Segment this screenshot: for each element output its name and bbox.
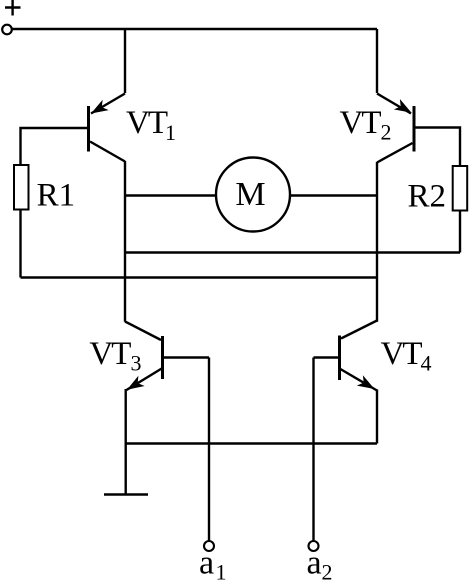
svg-text:3: 3 [131,351,142,376]
svg-text:VT: VT [89,336,131,372]
svg-text:M: M [235,176,265,213]
svg-text:R2: R2 [408,179,447,215]
svg-text:1: 1 [165,120,176,145]
svg-text:a: a [307,545,322,580]
svg-text:2: 2 [322,560,333,580]
svg-text:VT: VT [340,105,382,141]
svg-text:R1: R1 [37,178,76,214]
svg-text:1: 1 [216,560,227,580]
svg-text:VT: VT [126,105,168,141]
svg-text:4: 4 [421,351,432,376]
svg-text:2: 2 [381,120,392,145]
svg-text:VT: VT [381,336,423,372]
svg-text:a: a [199,545,214,580]
